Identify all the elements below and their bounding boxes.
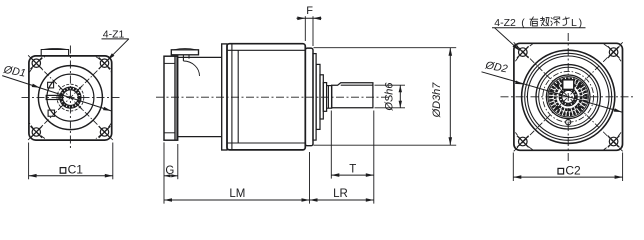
svg-text:(: ( <box>521 17 525 29</box>
svg-text:): ) <box>579 17 583 29</box>
svg-text:LR: LR <box>333 188 348 200</box>
svg-text:T: T <box>349 163 356 175</box>
svg-text:L: L <box>571 17 577 29</box>
svg-text:G: G <box>165 165 174 177</box>
svg-text:ØSh6: ØSh6 <box>383 82 395 112</box>
svg-text:C1: C1 <box>68 163 84 177</box>
svg-text:C2: C2 <box>565 163 581 177</box>
svg-text:4-Z2: 4-Z2 <box>494 17 516 29</box>
svg-text:LM: LM <box>229 188 245 200</box>
svg-text:F: F <box>306 5 313 17</box>
svg-text:ØD3h7: ØD3h7 <box>431 82 443 119</box>
